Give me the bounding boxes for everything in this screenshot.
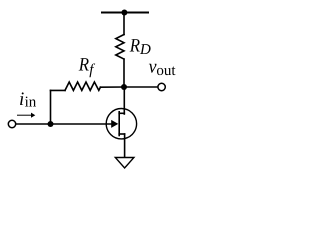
transistor Q1 drain lead	[119, 112, 124, 114]
transistor Q1 channel bar	[118, 112, 120, 136]
node top rail junction	[121, 10, 127, 16]
wire iin terminal to gate	[16, 123, 111, 125]
svg-text:R: R	[129, 35, 141, 56]
svg-text:R: R	[78, 55, 90, 76]
wire source to ground	[124, 134, 126, 158]
terminal iin open circle	[8, 120, 15, 127]
iin current arrow	[18, 114, 33, 116]
transistor Q1 gate arrow	[111, 120, 118, 128]
wire output node to vout terminal	[124, 86, 157, 88]
svg-text:i: i	[19, 89, 24, 110]
wire Rf left lead	[51, 89, 66, 91]
wire top supply rail	[102, 12, 148, 14]
svg-text:D: D	[139, 42, 151, 58]
svg-text:out: out	[156, 63, 176, 79]
wire gate node up to Rf	[50, 90, 52, 124]
svg-text:f: f	[89, 62, 95, 78]
svg-text:in: in	[25, 95, 37, 111]
wire RD bottom to output node	[123, 59, 125, 87]
transistor Q1 source lead	[119, 133, 124, 135]
node output junction	[121, 84, 127, 90]
wire output node to drain	[123, 87, 125, 114]
wire rail to RD top	[123, 13, 125, 35]
wire Rf right lead to output node	[100, 86, 124, 88]
terminal vout open circle	[158, 83, 165, 90]
ground	[115, 158, 134, 169]
resistor RD	[116, 35, 124, 60]
node gate junction	[48, 121, 54, 127]
transistor Q1 envelope	[106, 109, 136, 139]
resistor Rf	[65, 82, 100, 90]
